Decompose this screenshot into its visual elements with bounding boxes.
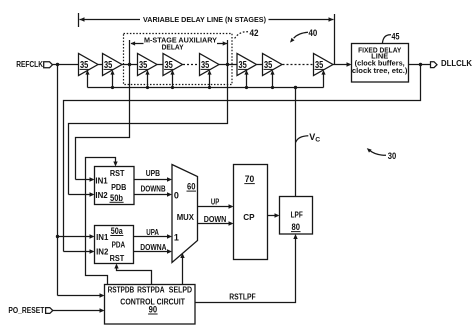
svg-text:1: 1 (174, 232, 179, 242)
svg-text:IN1: IN1 (96, 233, 109, 242)
node VC riser junction (294, 86, 297, 89)
svg-text:60: 60 (187, 182, 196, 192)
delay buffer 35 stage 5 (200, 54, 220, 76)
wire VC control arrow stage 3 (145, 70, 149, 89)
svg-text:VC: VC (309, 132, 320, 143)
svg-text:40: 40 (309, 28, 318, 39)
leader for VC label (296, 136, 309, 143)
svg-text:IN2: IN2 (95, 191, 108, 200)
wire REFCLK input segment (53, 64, 79, 66)
wire stage8 to fixed delay line (333, 64, 350, 66)
control circuit 90 box (105, 285, 196, 325)
svg-text:DOWNB: DOWNB (141, 185, 166, 194)
svg-text:42: 42 (250, 28, 259, 39)
svg-text:LPF: LPF (291, 211, 303, 220)
leader arrow for 30 (367, 148, 386, 155)
wire VC control arrow stage 6 (244, 70, 248, 89)
dashed box M-stage auxiliary delay (124, 34, 233, 85)
wire VC control arrow stage 2 (110, 70, 114, 89)
svg-text:70: 70 (245, 174, 255, 184)
svg-text:(clock buffers,: (clock buffers, (355, 60, 405, 67)
label 35 stage 8 (underlined) (315, 60, 324, 71)
label 35 stage 6 (underlined) (238, 60, 247, 71)
svg-text:IN1: IN1 (95, 176, 108, 185)
label 35 stage 3 (underlined) (139, 60, 148, 71)
wire dotted gap stage7-stage8 (283, 64, 314, 66)
wire stage1-stage2 (98, 64, 103, 66)
variable delay line span arrow (79, 13, 335, 65)
wire REFCLK feedback vertical (57, 65, 59, 296)
wire stage5-stage6 with M-stage tap (219, 64, 237, 66)
node REFCLK to PDA IN1 junction (56, 235, 59, 238)
node M-stage tap junction (226, 63, 229, 66)
fixed delay line box (352, 44, 409, 83)
svg-text:PDA: PDA (112, 240, 126, 249)
svg-text:UPB: UPB (146, 169, 161, 178)
wire VC control arrow stage 5 (207, 70, 211, 89)
mux 60 trapezoid (172, 165, 198, 263)
label 35 stage 2 (underlined) (104, 60, 113, 71)
phase detector PDA 50a box (95, 226, 134, 264)
wire 2-stage tap to PDB IN1 (76, 40, 130, 180)
svg-text:RST: RST (110, 254, 125, 263)
label 80 (underlined) (291, 222, 301, 232)
svg-text:clock tree, etc.): clock tree, etc.) (352, 68, 408, 75)
wire DLLCLK output (409, 64, 431, 66)
wire stage3-stage4 (157, 64, 163, 66)
wire VC control arrow stage 4 (170, 70, 174, 89)
label 35 stage 1 (underlined) (80, 60, 89, 71)
wire RSTLPF control to LPF (195, 234, 298, 303)
wire arrow into PDA IN1 (58, 234, 95, 238)
wire stage2-stage3 with 2-stage tap (122, 64, 138, 66)
delay buffer 35 stage 4 (163, 54, 183, 76)
svg-text:IN2: IN2 (96, 247, 109, 256)
charge pump CP 70 box (234, 165, 268, 260)
label 70 (underlined) (244, 174, 255, 184)
svg-text:CP: CP (243, 212, 255, 222)
svg-text:UPA: UPA (146, 228, 159, 237)
wire DOWNB to MUX (134, 192, 172, 196)
output terminal DLLCLK pad (431, 62, 438, 68)
svg-text:UP: UP (211, 198, 219, 207)
svg-text:MUX: MUX (177, 213, 195, 222)
node DLLCLK feedback junction (419, 63, 422, 66)
input terminal REFCLK pad (44, 62, 53, 68)
wire stage6-stage7 (257, 64, 263, 66)
wire VC control arrow stage 1 (85, 70, 89, 88)
wire VC distribution line (88, 87, 324, 89)
wire RSTPDB to PDB RST (86, 158, 118, 285)
label 50a (underlined) (110, 226, 123, 236)
wire UPA to MUX (134, 234, 173, 238)
delay buffer 35 stage 7 (263, 54, 283, 76)
label 35 stage 5 (underlined) (201, 60, 210, 71)
label 50b (underlined) (110, 193, 124, 203)
M-stage span arrows (131, 41, 228, 45)
wire VC control arrow stage 8 (321, 70, 325, 88)
wire UP MUX to CP (198, 204, 234, 208)
label 35 stage 4 (underlined) (164, 60, 173, 71)
wire dotted gap stage4-stage5 (183, 64, 200, 66)
svg-text:DLLCLK: DLLCLK (441, 59, 472, 68)
svg-text:50b: 50b (110, 193, 123, 203)
wire arrow into PDB IN1 (76, 177, 95, 181)
wire DLLCLK feedback to PDA IN2 (64, 65, 421, 252)
svg-text:RSTPDA: RSTPDA (137, 285, 165, 294)
low pass filter LPF 80 box (280, 197, 313, 235)
svg-text:SELPD: SELPD (169, 285, 192, 294)
wire DOWNA to MUX (134, 249, 173, 253)
leader for 45 (382, 35, 391, 44)
svg-text:RSTPDB: RSTPDB (108, 285, 135, 294)
svg-text:DOWN: DOWN (204, 215, 227, 224)
svg-text:PO_RESET: PO_RESET (8, 306, 44, 315)
wire M-stage tap to PDB IN2 (69, 40, 228, 195)
svg-text:RST: RST (110, 169, 125, 178)
wire VC control arrow stage 7 (270, 70, 274, 89)
wire arrow into fixed delay line (347, 62, 352, 66)
svg-text:RSTLPF: RSTLPF (229, 293, 256, 302)
svg-text:DOWNA: DOWNA (140, 243, 166, 252)
label FIXED DELAY LINE (clock buffers, clock tree, etc.) (352, 47, 408, 75)
wire arrow into PDA IN2 (64, 249, 95, 253)
svg-text:LINE: LINE (371, 53, 388, 60)
svg-text:50a: 50a (111, 226, 124, 236)
wire DOWN MUX to CP (198, 221, 234, 225)
leader arrow for 40 (290, 32, 308, 42)
wire arrow into PDB IN2 (69, 192, 95, 196)
svg-text:45: 45 (392, 31, 401, 42)
leader for 42 (234, 32, 248, 39)
wire UPB to MUX (134, 177, 172, 181)
wire PO_RESET to control circuit (53, 308, 105, 312)
svg-text:REFCLK: REFCLK (16, 60, 43, 69)
wire arrow CP to LPF (268, 213, 280, 217)
delay buffer 35 stage 6 (237, 54, 257, 76)
label 35 stage 7 (underlined) (264, 60, 273, 71)
label 60 (underlined) (187, 182, 197, 192)
delay buffer 35 stage 1 (79, 54, 99, 76)
delay buffer 35 stage 8 (314, 54, 334, 76)
svg-text:0: 0 (174, 190, 179, 200)
svg-text:90: 90 (149, 305, 158, 315)
phase detector PDB 50b box (95, 167, 135, 205)
wire VC riser from LPF (295, 88, 297, 197)
svg-text:DELAY: DELAY (162, 43, 184, 52)
input terminal PO_RESET pad (46, 308, 53, 314)
svg-text:30: 30 (388, 151, 397, 162)
wire arrow REFCLK into control circuit (58, 293, 105, 297)
node 2-stage tap junction (128, 63, 131, 66)
delay buffer 35 stage 3 (138, 54, 158, 76)
wire SELPD to MUX select (180, 253, 184, 285)
svg-text:VARIABLE DELAY LINE (N STAGES): VARIABLE DELAY LINE (N STAGES) (143, 15, 266, 24)
svg-text:80: 80 (292, 222, 301, 232)
delay buffer 35 stage 2 (103, 54, 123, 76)
wire RSTPDA to PDA RST (114, 264, 151, 285)
label 90 (underlined) (148, 305, 158, 315)
svg-text:PDB: PDB (111, 183, 126, 192)
node REFCLK tap junction (56, 63, 59, 66)
